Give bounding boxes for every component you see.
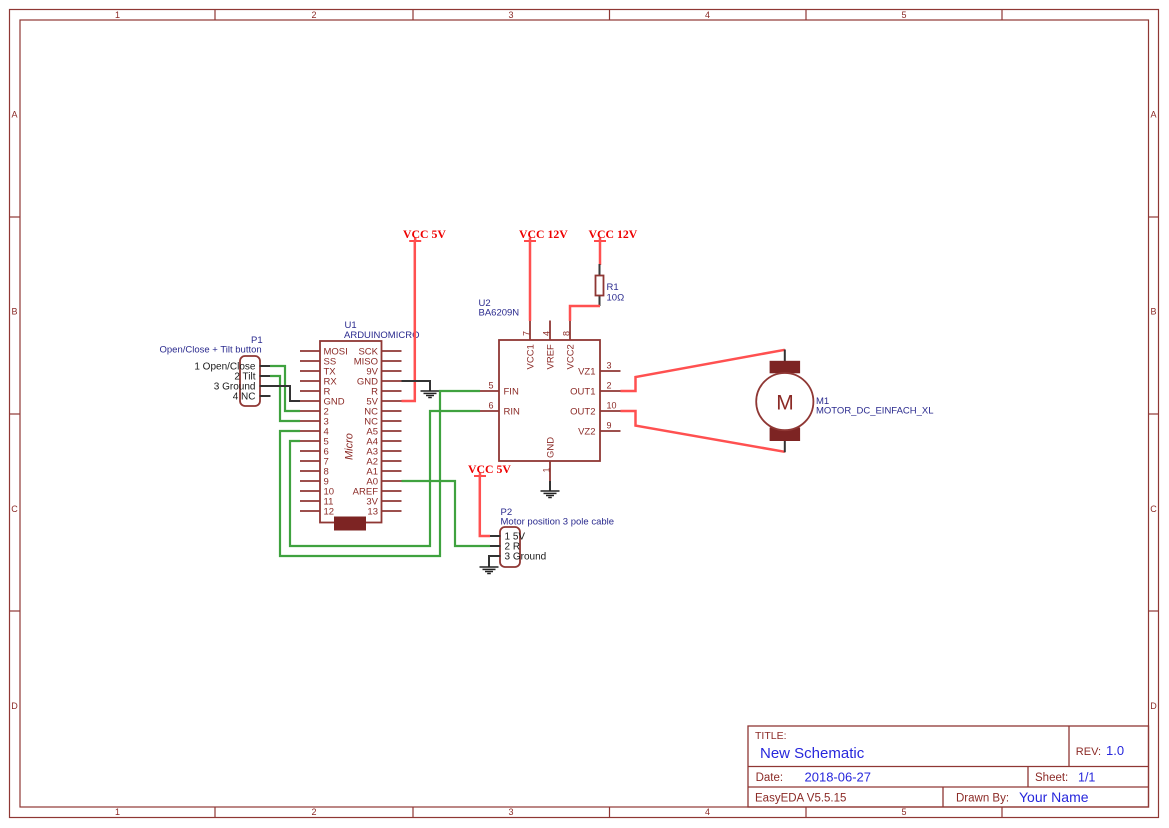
U2 pin 1 GND [549,461,551,481]
wire P1.2 to U1.3 (green) [270,376,300,421]
svg-text:1/1: 1/1 [1078,771,1095,785]
P2 pin labels [505,532,547,563]
svg-text:9: 9 [607,421,612,431]
wire VCC12V to R1 (red) [599,241,602,265]
U2 pin names [504,387,521,418]
svg-text:MOTOR_DC_EINFACH_XL: MOTOR_DC_EINFACH_XL [816,406,934,417]
wire U2.GND to ground (black) [549,481,551,492]
M1 reference designator [816,396,829,407]
svg-text:VZ2: VZ2 [578,427,595,438]
svg-text:7: 7 [521,331,531,336]
svg-text:VCC 12V: VCC 12V [589,227,638,241]
svg-text:1: 1 [115,10,120,20]
svg-text:3: 3 [607,361,612,371]
P2 pin 2 stub [490,545,501,547]
svg-text:6: 6 [488,401,493,411]
svg-text:Open/Close + Tilt button: Open/Close + Tilt button [160,345,262,356]
power VCC 5V (U1) [403,227,446,241]
U2 pin 5 FIN [480,390,499,392]
U1 reference designator [345,320,357,331]
svg-text:B: B [1150,307,1156,317]
svg-text:2: 2 [311,10,316,20]
svg-text:OUT1: OUT1 [570,387,595,398]
U2 pin 8 VCC2 [569,321,571,341]
U2 pin numbers [488,331,616,473]
svg-text:VCC2: VCC2 [565,344,576,369]
svg-text:5: 5 [901,807,906,817]
svg-text:4: 4 [541,331,551,336]
svg-text:VCC1: VCC1 [525,344,536,369]
svg-text:VZ1: VZ1 [578,367,595,378]
svg-text:REV:: REV: [1076,746,1101,758]
wire VCC12V to U2.VCC1 (red) [529,241,532,321]
U1 left pin names [324,347,348,518]
svg-text:EasyEDA V5.5.15: EasyEDA V5.5.15 [755,793,846,805]
ground (U1) [421,391,440,398]
svg-text:Drawn By:: Drawn By: [956,793,1009,805]
svg-text:4: 4 [705,10,710,20]
svg-text:GND: GND [545,437,556,458]
wire U1.A0 to P2.2 (green) [402,481,491,546]
svg-text:TITLE:: TITLE: [755,730,787,742]
P1 pin 2 stub [260,375,271,377]
P1 pin labels [194,362,256,403]
svg-text:Your Name: Your Name [1019,789,1089,805]
svg-text:ARDUINOMICRO: ARDUINOMICRO [344,330,419,341]
svg-text:5: 5 [488,381,493,391]
svg-text:A: A [1150,110,1156,120]
connector P1 [240,356,260,406]
U1 right pins [382,351,402,511]
U2 pin 6 RIN [480,410,499,412]
svg-text:1: 1 [541,467,551,472]
IC U1 ARDUINOMICRO body [320,341,382,523]
P1 name label [160,345,262,356]
R1 value 10ohm [607,293,625,304]
wire VCC5V to U1.5V (red) [402,241,415,401]
wire VCC5V to P2.1 (red) [480,476,490,536]
U2 pin 4 VREF [549,321,551,341]
svg-text:3 Ground: 3 Ground [505,552,547,563]
svg-text:2: 2 [311,807,316,817]
resistor R1 [596,264,604,306]
svg-text:B: B [11,307,17,317]
motor M1 [756,350,813,453]
svg-text:BA6209N: BA6209N [479,308,520,319]
svg-text:13: 13 [367,507,378,518]
svg-text:D: D [1150,701,1157,711]
svg-text:C: C [1150,504,1157,514]
svg-text:Date:: Date: [756,772,784,784]
U1 left pins [300,351,320,511]
svg-text:2018-06-27: 2018-06-27 [805,770,872,785]
svg-text:OUT2: OUT2 [570,407,595,418]
svg-text:1.0: 1.0 [1106,743,1124,758]
svg-text:1: 1 [115,807,120,817]
svg-text:3: 3 [508,807,513,817]
P1 pin 4 stub (NC) [260,395,271,397]
svg-text:Motor position 3 pole cable: Motor position 3 pole cable [501,517,615,528]
power VCC 12V (R1) [589,227,638,241]
svg-text:RIN: RIN [504,407,521,418]
U2 part name [479,308,520,319]
svg-text:New Schematic: New Schematic [760,745,865,762]
svg-text:A: A [11,110,17,120]
svg-text:VCC 12V: VCC 12V [519,227,568,241]
svg-text:D: D [11,701,18,711]
wire P1.1 to U1.2 (green) [270,366,300,411]
svg-text:3: 3 [508,10,513,20]
U1 USB connector block [334,517,366,531]
svg-text:Sheet:: Sheet: [1035,772,1068,784]
power VCC 12V (U2 VCC1) [519,227,568,241]
connector P2 [500,527,520,567]
power VCC 5V (P2) [468,462,511,476]
wire U1.4 to U2.FIN (green) [280,391,480,556]
U1 part name [344,330,419,341]
U2 reference designator [479,298,491,309]
wire U1.GND(right) to ground (black) [402,381,431,391]
wire R1 to U2.VCC2 (red) [570,306,600,321]
U2 pin 7 VCC1 [529,321,531,341]
P1 reference designator [251,335,263,346]
svg-text:M: M [776,392,794,415]
U1 right pin names [353,347,379,518]
svg-text:VCC 5V: VCC 5V [468,462,511,476]
svg-text:10: 10 [607,401,617,411]
svg-text:4 NC: 4 NC [233,392,256,403]
ground (P2) [480,567,499,574]
U2 pin 3 VZ1 [600,370,621,372]
wire U2.OUT2 to motor (red) [621,411,785,452]
svg-text:5: 5 [901,10,906,20]
svg-text:C: C [11,504,18,514]
svg-text:FIN: FIN [504,387,519,398]
P2 pin 3 stub to ground (black) [489,556,501,567]
U2 pin 10 OUT2 [600,410,621,412]
svg-text:Micro: Micro [344,433,356,460]
P2 name label [501,517,615,528]
svg-text:VCC 5V: VCC 5V [403,227,446,241]
IC U2 BA6209N body [499,340,600,461]
R1 reference designator [607,282,619,293]
P2 reference designator [501,507,513,518]
P2 pin 1 stub [490,535,501,537]
ground (U2) [541,491,560,498]
wire U1.5 to U2.RIN (green) [290,411,480,546]
svg-text:2: 2 [607,381,612,391]
svg-text:8: 8 [561,331,571,336]
svg-text:R1: R1 [607,282,619,293]
svg-text:4: 4 [705,807,710,817]
wire P1.3 to U1.GND (black) [260,386,301,401]
M1 part name [816,406,934,417]
U1 Micro label (rotated) [344,433,356,460]
svg-text:10Ω: 10Ω [607,293,625,304]
svg-text:VREF: VREF [545,344,556,370]
P1 pin 1 stub [260,365,271,367]
U2 pin 2 OUT1 [600,390,621,392]
wire U2.OUT1 to motor (red) [621,350,785,391]
U2 pin 9 VZ2 [600,430,621,432]
title block [748,726,1149,807]
svg-text:12: 12 [324,507,335,518]
